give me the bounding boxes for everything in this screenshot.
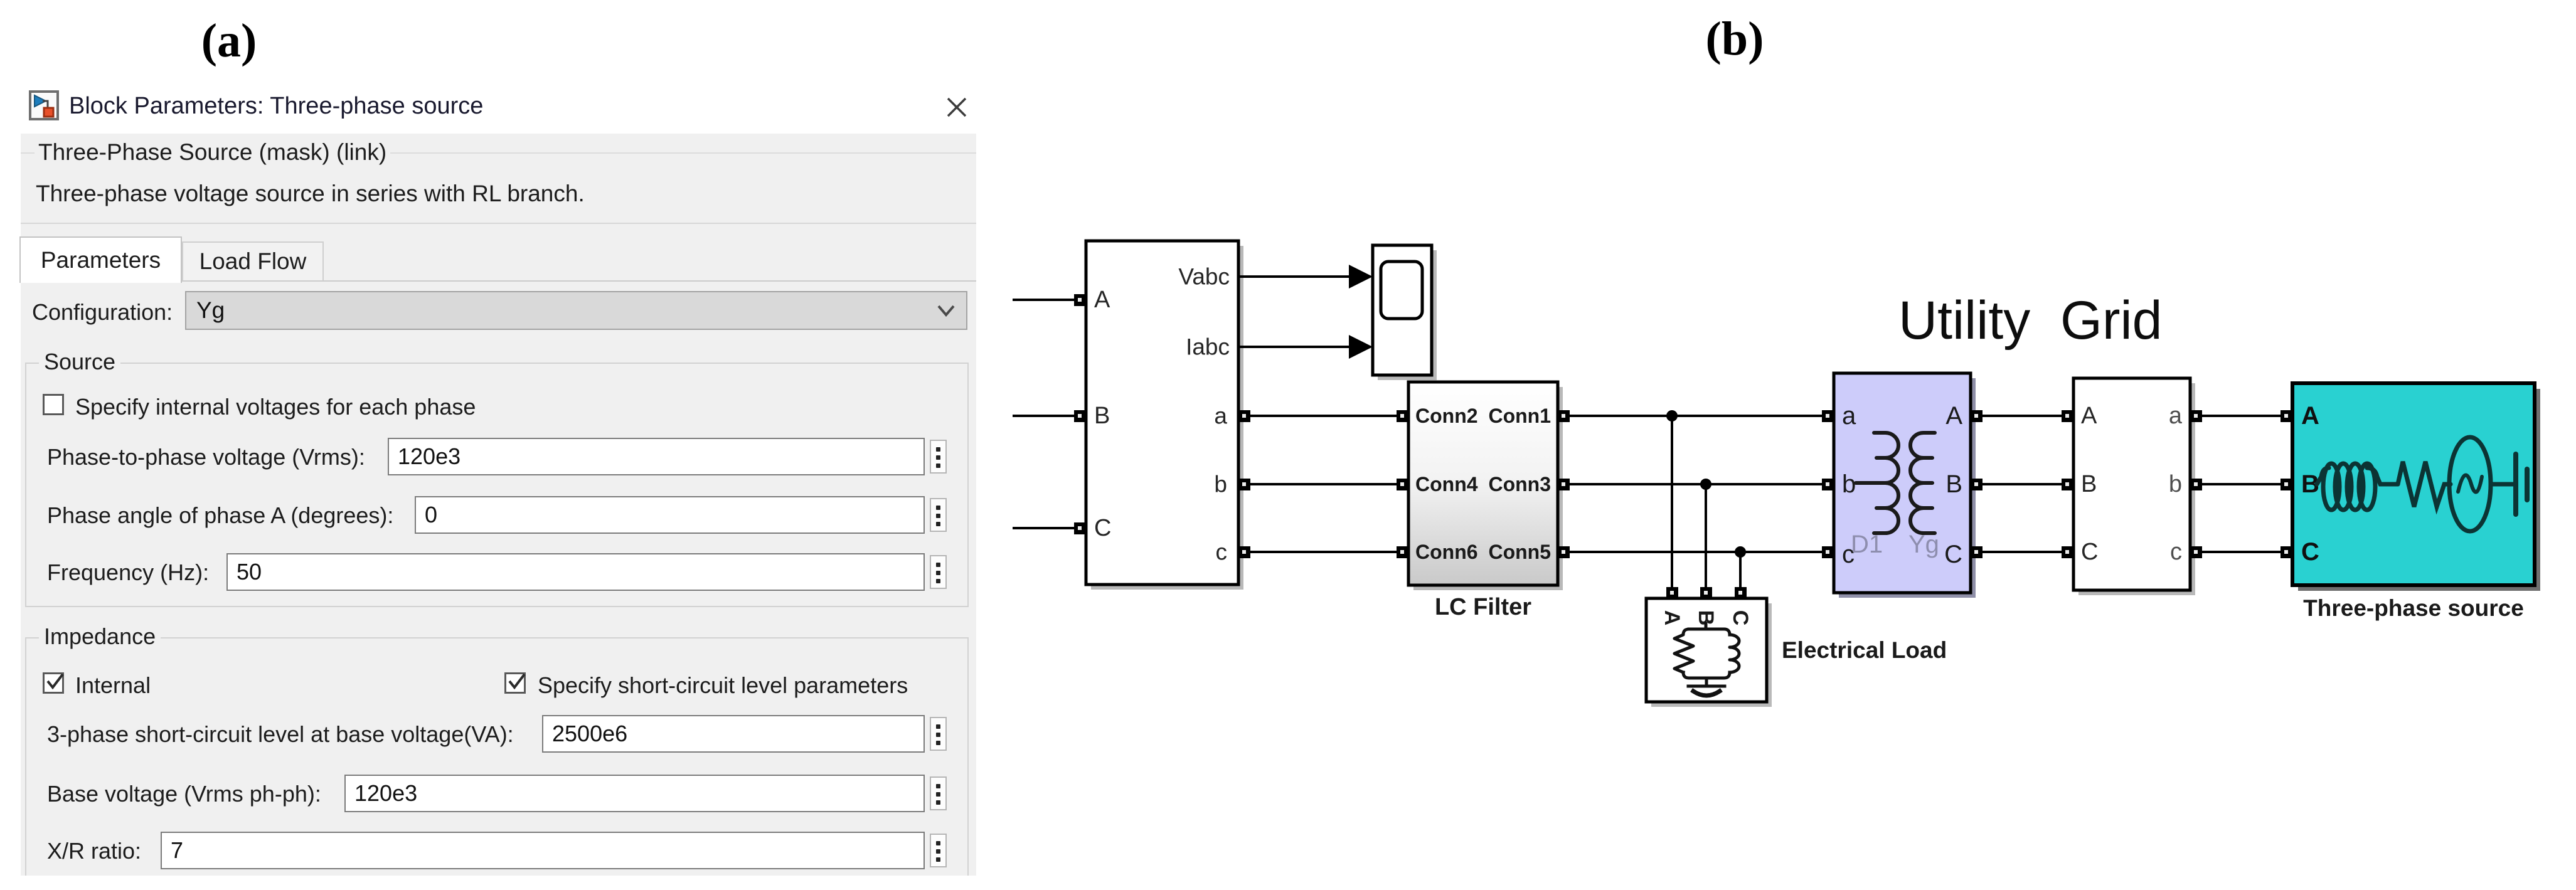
scope block xyxy=(1373,245,1437,380)
port C of load xyxy=(1735,587,1747,599)
wire input stub A xyxy=(1014,299,1075,301)
svg-text:a: a xyxy=(1214,403,1227,429)
figure label (b) xyxy=(1694,12,1775,66)
port A of U1 xyxy=(1074,294,1086,306)
description bottom line xyxy=(21,223,976,224)
Electrical Load block xyxy=(1646,598,1772,707)
Impedance group box xyxy=(25,637,969,876)
port A of T1 xyxy=(1971,410,1983,422)
inductor L xyxy=(2317,468,2329,484)
transformer block T1 xyxy=(1834,373,1976,598)
port b of U2 xyxy=(2190,479,2202,490)
port a of T1 xyxy=(1822,410,1834,422)
wire Iabc to scope xyxy=(1238,335,1373,359)
svg-text:b: b xyxy=(1842,470,1856,498)
terminator bars xyxy=(2513,454,2518,514)
svg-text:A: A xyxy=(1660,610,1684,626)
svg-text:A: A xyxy=(1094,287,1110,313)
svg-text:A: A xyxy=(1945,402,1962,430)
svg-text:Electrical Load: Electrical Load xyxy=(1782,637,1947,663)
LC Filter block xyxy=(1408,382,1563,590)
port C of T1 xyxy=(1971,546,1983,558)
row: X/R ratio xyxy=(47,838,141,864)
junction node on wire a xyxy=(1666,410,1678,421)
port c of U2 xyxy=(2190,546,2202,558)
T1 secondary winding xyxy=(1910,433,1935,533)
svg-text:c: c xyxy=(2170,539,2182,565)
row: phase angle xyxy=(47,502,393,529)
tab pane top line xyxy=(21,280,976,282)
Source group box xyxy=(25,363,969,607)
three-phase V-I measurement block U1 xyxy=(1086,241,1243,590)
close X xyxy=(944,95,969,120)
port B of U2 xyxy=(2062,479,2073,490)
svg-text:Three-phase source: Three-phase source xyxy=(2303,595,2524,621)
svg-text:a: a xyxy=(2169,403,2183,429)
svg-text:Utility Grid: Utility Grid xyxy=(1898,290,2162,351)
junction node on wire b xyxy=(1700,479,1711,490)
port c of U1 xyxy=(1238,546,1250,558)
port B of T1 xyxy=(1971,479,1983,490)
svg-text:Conn2: Conn2 xyxy=(1415,405,1478,427)
svg-text:Conn3: Conn3 xyxy=(1488,473,1551,495)
port B of V1 xyxy=(2281,479,2292,490)
dialog body xyxy=(21,134,976,876)
wire C: T1 to U2 xyxy=(1983,551,2062,553)
svg-text:Conn1: Conn1 xyxy=(1488,405,1551,427)
port C of U2 xyxy=(2062,546,2073,558)
V1 internal RL-source icon xyxy=(2317,437,2527,531)
svg-text:C: C xyxy=(1728,610,1752,626)
wire b: LC filter to transformer xyxy=(1570,483,1823,485)
port Conn1 of LC filter xyxy=(1558,410,1570,422)
port C of V1 xyxy=(2281,546,2292,558)
svg-text:C: C xyxy=(2301,538,2319,566)
svg-text:Conn5: Conn5 xyxy=(1488,541,1551,563)
svg-text:Iabc: Iabc xyxy=(1186,334,1230,360)
port C of U1 xyxy=(1074,522,1086,534)
svg-text:c: c xyxy=(1216,539,1228,565)
svg-text:A: A xyxy=(2301,402,2319,430)
port A of U2 xyxy=(2062,410,2073,422)
port b of U1 xyxy=(1238,479,1250,490)
wire to terminator xyxy=(2491,482,2513,487)
svg-text:B: B xyxy=(1094,403,1110,429)
svg-text:Vabc: Vabc xyxy=(1178,264,1230,290)
row: base voltage xyxy=(47,781,321,807)
figure label (a) xyxy=(188,14,270,68)
port Conn5 of LC filter xyxy=(1558,546,1570,558)
checkbox: specify internal voltages xyxy=(43,394,64,415)
wire c: LC filter to transformer xyxy=(1570,551,1823,553)
wire B: U2 to source xyxy=(2202,483,2281,485)
resistor R xyxy=(2398,462,2451,507)
port b of T1 xyxy=(1822,479,1834,490)
title bar icon xyxy=(29,90,59,120)
row: 3-phase short-circuit level xyxy=(47,721,514,748)
tab: Parameters (active) xyxy=(19,236,182,283)
row: phase-to-phase voltage xyxy=(47,444,365,470)
wire: node b down to load port B xyxy=(1705,484,1707,588)
wire input stub B xyxy=(1014,415,1075,417)
wire A: U2 to source xyxy=(2202,415,2281,417)
svg-text:B: B xyxy=(1945,470,1962,498)
port A of load xyxy=(1666,587,1678,599)
svg-text:b: b xyxy=(1214,472,1227,497)
wire b: U1 to LC filter xyxy=(1250,483,1397,485)
svg-text:b: b xyxy=(2169,471,2182,497)
wire B: T1 to U2 xyxy=(1983,483,2062,485)
checkbox: Internal (checked) xyxy=(43,672,64,694)
row: frequency xyxy=(47,559,209,586)
T1 primary winding xyxy=(1856,433,1898,533)
svg-text:LC Filter: LC Filter xyxy=(1435,594,1531,620)
wire C: U2 to source xyxy=(2202,551,2281,553)
description xyxy=(36,181,585,207)
three-phase source block V1 xyxy=(2292,383,2540,591)
mask title xyxy=(35,139,390,166)
svg-text:B: B xyxy=(2081,471,2097,497)
svg-text:C: C xyxy=(1094,515,1111,541)
port Conn4 of LC filter xyxy=(1397,479,1408,490)
svg-text:C: C xyxy=(1944,541,1962,568)
Configuration row xyxy=(32,299,173,326)
port Conn2 of LC filter xyxy=(1397,410,1408,422)
wire A: T1 to U2 xyxy=(1983,415,2062,417)
wire a: LC filter to transformer xyxy=(1570,415,1823,417)
svg-text:Conn6: Conn6 xyxy=(1415,541,1478,563)
svg-text:a: a xyxy=(1842,402,1856,430)
port Conn3 of LC filter xyxy=(1558,479,1570,490)
port a of U2 xyxy=(2190,410,2202,422)
load RL parallel circuit icon xyxy=(1674,623,1739,696)
port B of load xyxy=(1700,587,1712,599)
three-phase V-I measurement block U2 xyxy=(2073,378,2195,595)
checkbox: specify short-circuit (checked) xyxy=(504,672,526,694)
junction node on wire c xyxy=(1735,546,1746,558)
tab: Load Flow xyxy=(182,241,324,282)
wire a: U1 to LC filter xyxy=(1250,415,1397,417)
port Conn6 of LC filter xyxy=(1397,546,1408,558)
svg-text:A: A xyxy=(2081,403,2097,429)
port c of T1 xyxy=(1822,546,1834,558)
port B of U1 xyxy=(1074,410,1086,422)
dialog title text xyxy=(69,93,483,120)
port a of U1 xyxy=(1238,410,1250,422)
wire c: U1 to LC filter xyxy=(1250,551,1397,553)
wire: node a down to load port A xyxy=(1671,416,1673,588)
wire Vabc to scope xyxy=(1238,265,1373,289)
AC source circle xyxy=(2449,437,2491,531)
wire input stub C xyxy=(1014,527,1075,529)
header separator line xyxy=(21,152,976,154)
port A of V1 xyxy=(2281,410,2292,422)
svg-text:C: C xyxy=(2081,539,2098,565)
svg-text:Conn4: Conn4 xyxy=(1415,473,1478,495)
wire: node c down to load port C xyxy=(1739,552,1742,588)
